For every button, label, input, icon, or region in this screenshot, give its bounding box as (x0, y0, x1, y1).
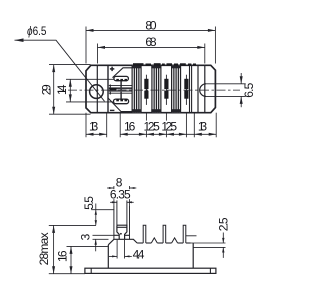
housing right edge (192, 243, 194, 268)
baseplate tab line left (90, 268, 92, 273)
dim texts side view (37, 175, 230, 265)
short line at pin3 (186, 235, 197, 237)
faston tab 1 (top stadium) (114, 76, 128, 80)
svg-text:3: 3 (79, 233, 93, 240)
right wall pair (189, 65, 191, 112)
dim 14 (66, 78, 114, 80)
housing top edge segments (137, 242, 191, 244)
slot line top / 6.5 ext (206, 83, 246, 85)
svg-text:6.5: 6.5 (242, 82, 256, 97)
faston stem (120, 81, 122, 99)
dim 4.4 (116, 240, 118, 259)
faston dot (120, 233, 122, 235)
faston tab 2 (bottom stadium) (114, 99, 129, 104)
leader line phi6.5 (15, 40, 105, 101)
pin 2 (163, 225, 166, 243)
screw 1 (144, 75, 148, 105)
middle terminal band (109, 85, 134, 93)
svg-text:12.5: 12.5 (144, 119, 161, 133)
middle terminal dark dash (110, 88, 117, 91)
band dark ends bottom (132, 109, 181, 113)
tiny label marks on top edge (133, 63, 196, 65)
dim 3 (93, 234, 114, 236)
screw 3 (184, 75, 188, 105)
bottom chain dim line (85, 113, 87, 138)
svg-text:16: 16 (56, 250, 70, 262)
right ledge line / 2.5 ext (193, 246, 225, 248)
faston outer walls (113, 206, 115, 239)
dim 6.5 vertical line (240, 73, 242, 84)
svg-text:16: 16 (124, 119, 136, 133)
pedestal top segments (114, 234, 119, 236)
minus mark (110, 109, 115, 111)
dim 2.5 (222, 233, 224, 244)
ridge 2 (172, 238, 178, 243)
plus mark (110, 67, 114, 71)
dim 28max (49, 224, 96, 226)
dim 68 (97, 44, 99, 64)
left housing boundary line (96, 65, 98, 112)
hatch band 2 (152, 65, 161, 112)
baseplate tab line right (209, 268, 211, 273)
dim 80 (85, 27, 87, 64)
dim 6.35 (110, 201, 117, 203)
svg-text:2.5: 2.5 (216, 217, 230, 231)
ridge 1 (151, 238, 157, 243)
svg-text:68: 68 (145, 35, 157, 49)
mounting hole left (90, 85, 104, 99)
right housing boundary (204, 65, 206, 112)
slot line bottom / 6.5 ext (206, 95, 246, 97)
svg-text:ϕ6.5: ϕ6.5 (27, 24, 47, 38)
hatch band 1 (132, 65, 141, 112)
pin 1 (143, 225, 146, 243)
pin 3 (183, 225, 186, 243)
svg-text:14: 14 (55, 84, 69, 95)
svg-text:12.5: 12.5 (161, 119, 177, 133)
baseplate (85, 268, 216, 273)
center line horizontal (dash-dot) (68, 89, 240, 91)
dim 8 (113, 186, 115, 206)
faston blade sides / 6.35 ext (116, 200, 118, 225)
dim 29 (49, 64, 91, 66)
svg-text:13: 13 (198, 119, 208, 133)
hatch band 3 (172, 65, 181, 112)
screw 2 (164, 75, 168, 105)
faston pedestal ledge (108, 239, 137, 245)
svg-text:80: 80 (145, 19, 157, 33)
faston cap (117, 225, 127, 239)
leader arrow (15, 38, 24, 42)
band dark ends top (132, 65, 181, 68)
arrows top dims (52, 29, 243, 136)
faston recess chamfer bottom (108, 98, 132, 112)
svg-text:13: 13 (89, 119, 99, 133)
svg-text:4.4: 4.4 (133, 247, 145, 261)
housing top right ext (191, 242, 226, 244)
faston recess chamfer top (113, 68, 133, 78)
dim 16 (67, 245, 108, 247)
svg-text:6.35: 6.35 (110, 188, 131, 202)
hatch band fills (132, 65, 181, 112)
arrows side view (52, 187, 224, 274)
faston tab1 teeth (116, 79, 127, 81)
text knockout chain (143, 121, 178, 131)
svg-text:29: 29 (39, 84, 53, 95)
dim texts top view (39, 19, 256, 134)
top view outline (module body 80x29 with chamfered corners) (86, 65, 215, 112)
housing left edge (107, 245, 109, 268)
svg-text:5.5: 5.5 (82, 196, 96, 210)
faston tab2 teeth (116, 99, 127, 101)
slot arc right (200, 84, 206, 97)
text knockout 6.35 (110, 189, 132, 199)
terminal section wall left (107, 65, 109, 112)
right inner boundary (197, 65, 199, 112)
dim 5.5 (91, 209, 114, 211)
svg-text:28max: 28max (37, 232, 51, 265)
